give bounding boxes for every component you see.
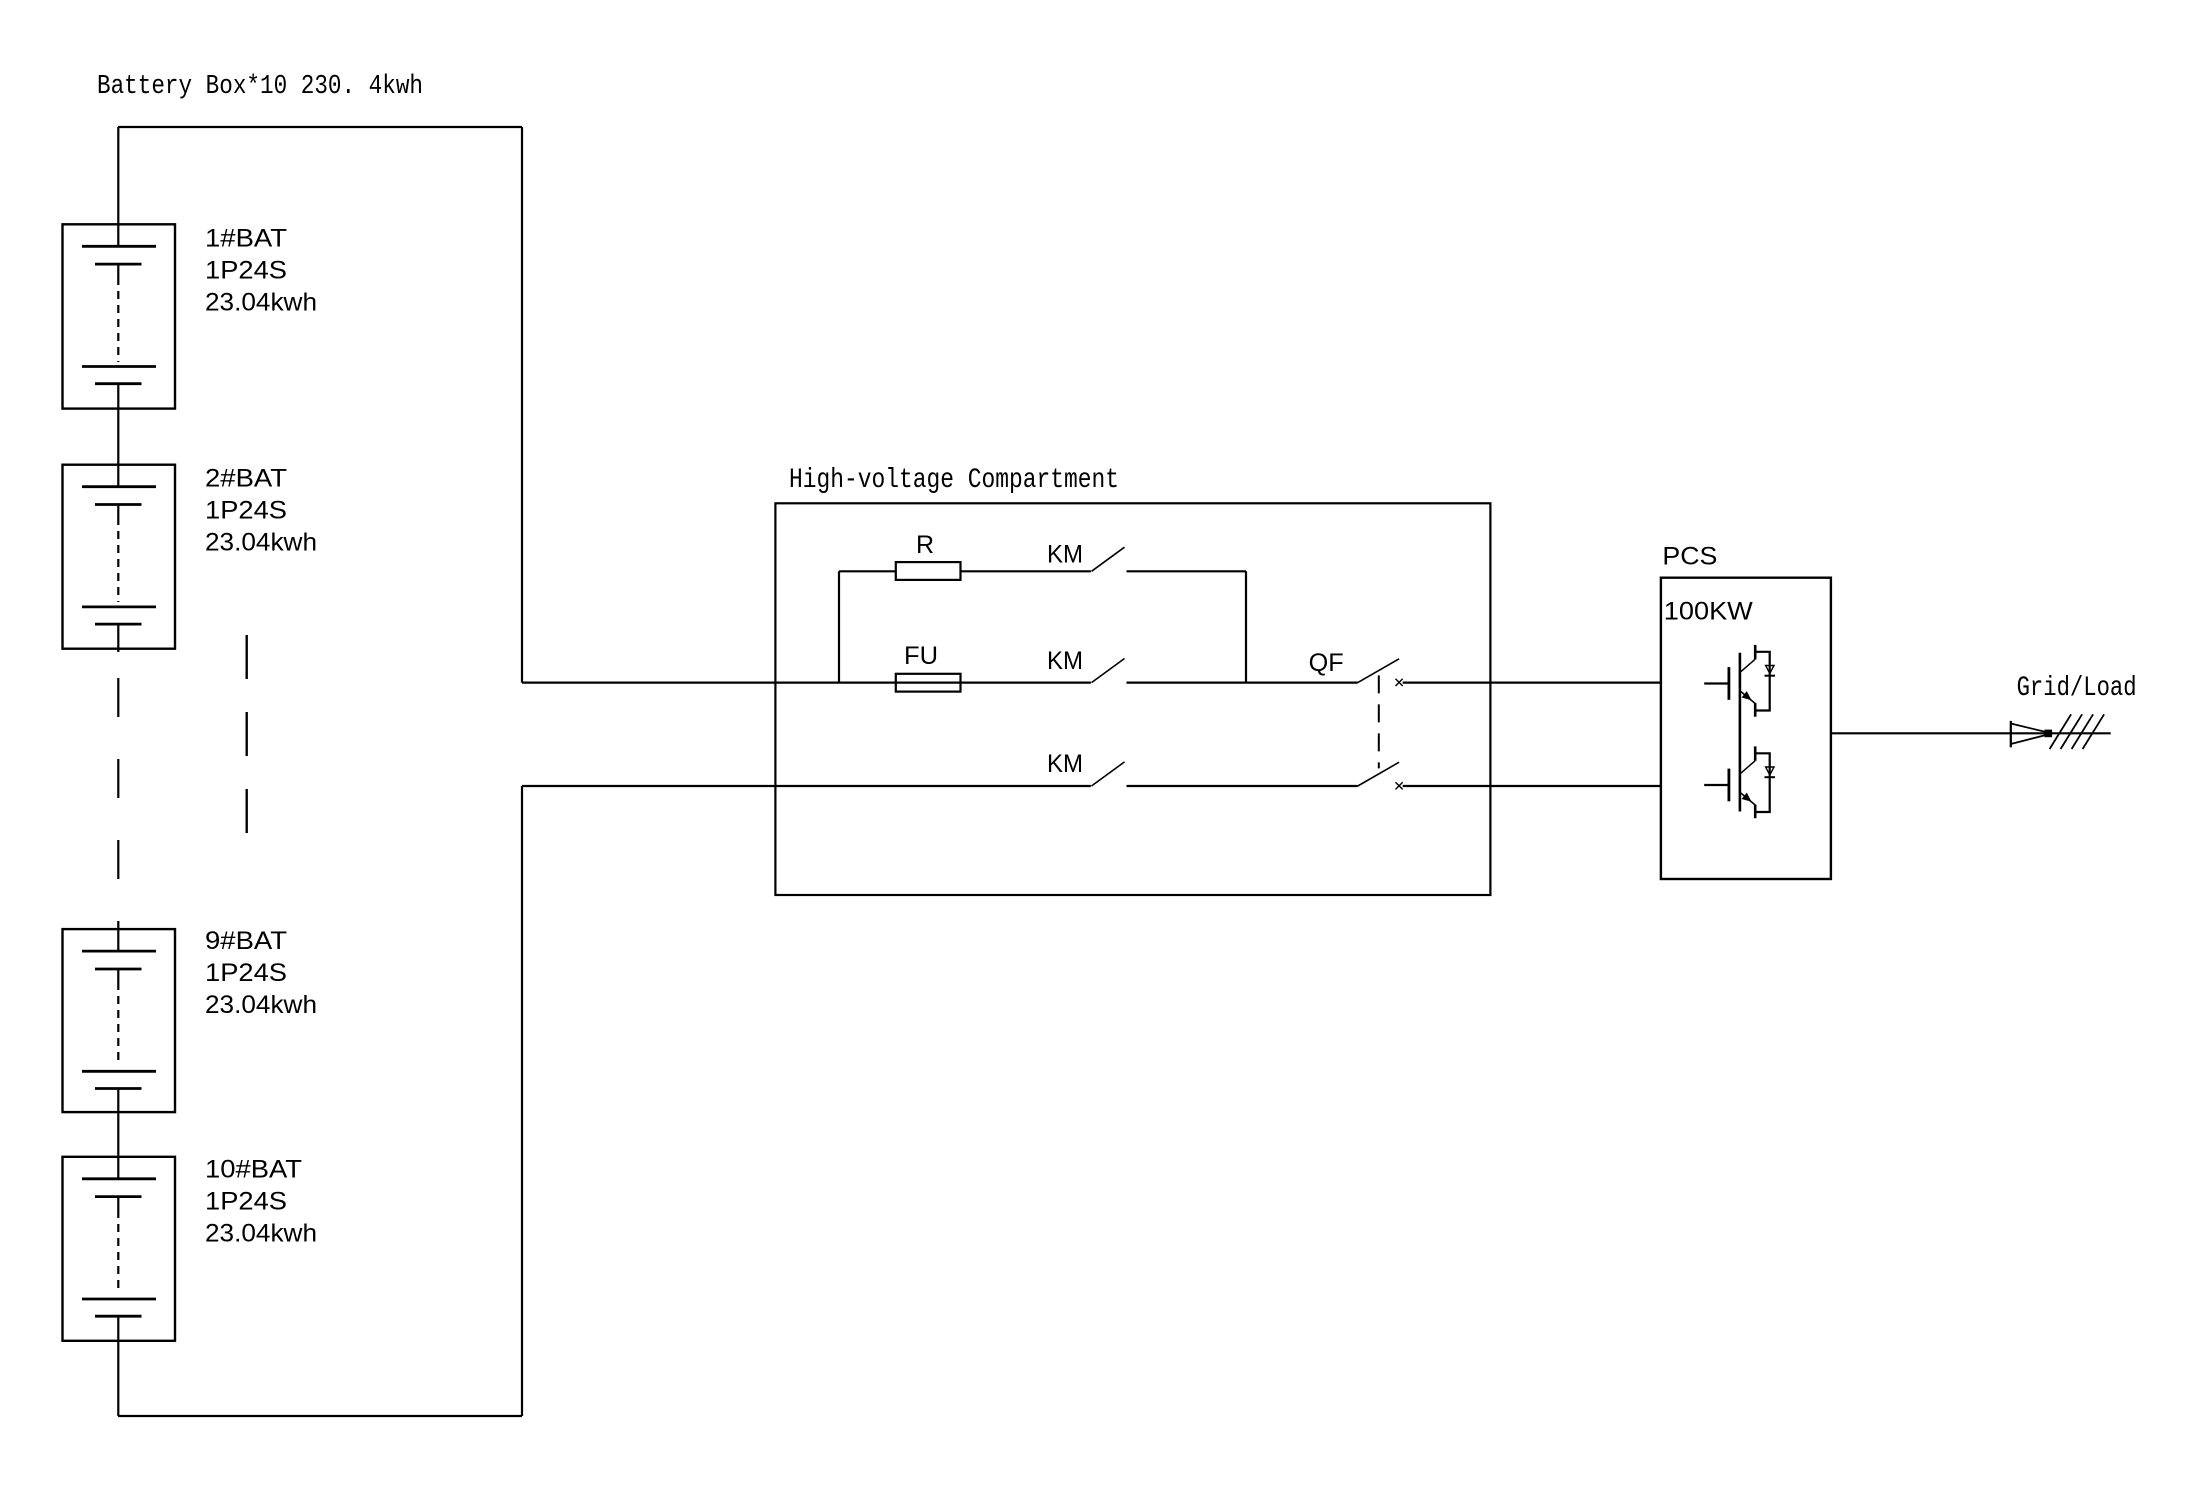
grid/load hatch stroke 1 (2050, 714, 2072, 749)
label 2#BAT (205, 465, 287, 493)
transistor IGBT lower gate lead (1704, 784, 1728, 786)
wire string continuation dashed (117, 652, 119, 922)
battery 1#BAT cell1 short plate (95, 263, 142, 266)
diode D2 loop (1755, 753, 1770, 812)
battery 2#BAT box (63, 465, 176, 649)
svg-text:1#BAT: 1#BAT (205, 224, 287, 252)
label 1#BAT 1P24S (205, 256, 287, 284)
label KM1 (1047, 541, 1083, 569)
label FU (904, 642, 938, 670)
battery 9#BAT box (63, 929, 176, 1112)
switch KM3 blade on bus- (1092, 762, 1125, 786)
label 9#BAT (205, 927, 287, 955)
grid/load arrow funnel bottom (2011, 735, 2048, 745)
wire 10#BAT internal stub (117, 1197, 119, 1210)
svg-text:KM: KM (1047, 750, 1083, 778)
wire PCS output line (1832, 732, 2111, 734)
battery box outline right edge lower segment (521, 786, 523, 1416)
label 2#BAT 1P24S (205, 497, 287, 525)
svg-text:FU: FU (904, 642, 938, 670)
high-voltage compartment box (775, 503, 1490, 895)
label: Battery Box*10 230.4kwh title (97, 72, 423, 102)
grid/load hatch stroke 2 (2061, 714, 2083, 749)
switch KM2 blade on bus+ (1092, 659, 1125, 683)
battery 9#BAT cell2 long plate (82, 1070, 156, 1073)
switch KM1 blade on R branch (1092, 547, 1125, 571)
grid/load arrow funnel top (2011, 724, 2048, 733)
svg-text:23.04kwh: 23.04kwh (205, 288, 317, 316)
label 1#BAT (205, 224, 287, 252)
svg-text:High-voltage Compartment: High-voltage Compartment (789, 465, 1119, 496)
battery 2#BAT cell1 long plate (82, 485, 156, 488)
svg-text:KM: KM (1047, 541, 1083, 569)
battery 2#BAT cell1 short plate (95, 503, 142, 506)
wire 1#BAT internal stub (117, 264, 119, 277)
wire into 9#BAT solid (117, 922, 119, 951)
diode D2 symbol (1765, 767, 1776, 777)
battery 10#BAT cell2 short plate (95, 1315, 142, 1318)
transistor IGBT upper emitter terminal (1754, 703, 1757, 717)
svg-text:9#BAT: 9#BAT (205, 927, 287, 955)
breaker QF mechanical link dashed (1378, 675, 1380, 768)
battery 2#BAT cell2 short plate (95, 623, 142, 626)
battery box outline bottom edge (118, 1415, 522, 1417)
svg-text:PCS: PCS (1662, 543, 1717, 571)
battery 10#BAT cell2 long plate (82, 1298, 156, 1301)
wire R branch right section (1127, 570, 1247, 572)
svg-text:100KW: 100KW (1664, 598, 1753, 626)
label 10#BAT 1P24S (205, 1188, 287, 1216)
PCS converter box (1661, 578, 1831, 879)
label 100KW (1664, 598, 1753, 626)
label KM2 (1047, 647, 1083, 675)
transistor IGBT lower gate bar (1728, 769, 1731, 802)
wire between 1#BAT and 2#BAT (117, 384, 119, 487)
transistor IGBT upper emitter arrow (1742, 691, 1752, 700)
svg-text:1P24S: 1P24S (205, 1188, 287, 1216)
breaker QF upper x mark (1396, 679, 1403, 686)
label Grid/Load (2017, 673, 2137, 704)
wire bus+ battery to KM (522, 681, 1091, 683)
wire resistor to KM1 (961, 570, 1091, 572)
battery 1#BAT box (63, 224, 176, 408)
battery 1#BAT cell2 long plate (82, 365, 156, 368)
transistor IGBT lower collector terminal (1754, 746, 1757, 760)
breaker QF upper blade (1358, 659, 1399, 683)
battery 10#BAT cell1 short plate (95, 1195, 142, 1198)
transistor IGBT upper collector diagonal (1741, 659, 1755, 672)
wire 9#BAT internal dashed (117, 982, 119, 1066)
battery 9#BAT cell1 long plate (82, 950, 156, 953)
battery 10#BAT box (63, 1157, 176, 1341)
transistor IGBT upper emitter diagonal (1741, 692, 1755, 704)
node continuation dashed marker line (245, 635, 247, 834)
transistor IGBT upper gate lead (1704, 682, 1728, 684)
battery 1#BAT cell2 short plate (95, 382, 142, 385)
grid/load hatch stroke 4 (2083, 714, 2105, 749)
svg-text:1P24S: 1P24S (205, 256, 287, 284)
wire R branch right stub down (1245, 571, 1247, 682)
svg-text:R: R (916, 531, 934, 559)
wire bus- battery to KM (522, 785, 1091, 787)
wire 10#BAT internal dashed (117, 1210, 119, 1294)
transistor IGBT upper gate bar (1728, 667, 1731, 700)
wire R branch to resistor (839, 570, 896, 572)
svg-text:Battery Box*10 230. 4kwh: Battery Box*10 230. 4kwh (97, 72, 423, 102)
label R (916, 531, 934, 559)
breaker QF lower x mark (1396, 782, 1403, 789)
label 1#BAT 23.04kwh (205, 288, 317, 316)
transistor IGBT lower emitter diagonal (1741, 793, 1755, 805)
battery box outline right edge upper segment (521, 127, 523, 683)
label 10#BAT 23.04kwh (205, 1220, 317, 1248)
battery 9#BAT cell1 short plate (95, 968, 142, 971)
battery 9#BAT cell2 short plate (95, 1087, 142, 1090)
battery box outline top edge (118, 126, 522, 128)
breaker QF lower blade (1358, 762, 1399, 786)
svg-text:QF: QF (1309, 649, 1344, 677)
wire bus- QF to PCS (1403, 785, 1661, 787)
label 10#BAT (205, 1156, 302, 1184)
battery 10#BAT cell1 long plate (82, 1177, 156, 1180)
svg-text:23.04kwh: 23.04kwh (205, 1220, 317, 1248)
wire below 10#BAT to bottom edge (117, 1316, 119, 1416)
label 9#BAT 1P24S (205, 959, 287, 987)
wire below 2#BAT solid stub (117, 624, 119, 652)
svg-text:2#BAT: 2#BAT (205, 465, 287, 493)
wire between 9#BAT and 10#BAT (117, 1089, 119, 1179)
transistor IGBT lower collector diagonal (1741, 761, 1755, 774)
svg-text:KM: KM (1047, 647, 1083, 675)
wire 1#BAT internal dashed (117, 277, 119, 362)
wire bus- KM to QF (1127, 785, 1358, 787)
wire bus+ KM to QF (1127, 681, 1358, 683)
wire 2#BAT internal stub (117, 505, 119, 518)
grid/load arrow bar (2010, 721, 2012, 747)
grid/load arrow tip dot (2045, 730, 2053, 738)
svg-text:23.04kwh: 23.04kwh (205, 529, 317, 557)
wire 9#BAT internal stub (117, 969, 119, 982)
svg-text:1P24S: 1P24S (205, 959, 287, 987)
label KM3 (1047, 750, 1083, 778)
label High-voltage Compartment title (789, 465, 1119, 496)
diode D1 symbol (1765, 666, 1776, 676)
label PCS (1662, 543, 1717, 571)
svg-text:1P24S: 1P24S (205, 497, 287, 525)
wire 2#BAT internal dashed (117, 517, 119, 602)
fuse FU body (896, 674, 961, 692)
svg-text:23.04kwh: 23.04kwh (205, 991, 317, 1019)
resistor R body (896, 562, 961, 580)
wire R branch left stub (838, 571, 840, 682)
svg-text:Grid/Load: Grid/Load (2017, 673, 2137, 704)
transistor IGBT phase leg main bar (1739, 653, 1742, 812)
label QF (1309, 649, 1344, 677)
transistor IGBT upper collector terminal (1754, 645, 1757, 659)
transistor IGBT lower emitter terminal (1754, 805, 1757, 819)
battery 1#BAT cell1 long plate (82, 245, 156, 248)
label 2#BAT 23.04kwh (205, 529, 317, 557)
grid/load hatch stroke 3 (2072, 714, 2094, 749)
battery 2#BAT cell2 long plate (82, 606, 156, 609)
transistor IGBT lower emitter arrow (1742, 793, 1752, 802)
svg-text:10#BAT: 10#BAT (205, 1156, 302, 1184)
wire battery string solid segment top (117, 127, 119, 246)
diode D1 loop (1755, 652, 1770, 711)
wire bus+ QF to PCS (1403, 681, 1661, 683)
label 9#BAT 23.04kwh (205, 991, 317, 1019)
